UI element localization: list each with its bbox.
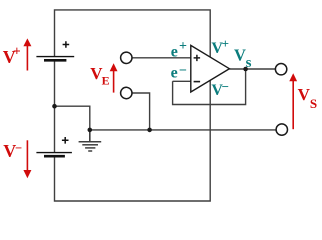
label VS (red, right): [298, 85, 318, 111]
svg-text:+: +: [179, 39, 187, 54]
wire: output to upper-right terminal: [229, 68, 275, 70]
wire: left vertical between batteries: [54, 60, 56, 152]
node: battery midpoint junction: [52, 104, 57, 109]
wire: e- input pin stub: [173, 80, 191, 82]
battery B2 plus label: [62, 137, 69, 144]
svg-text:s: s: [246, 55, 252, 71]
node: lower terminal junction: [147, 128, 152, 133]
ground: [79, 130, 102, 151]
svg-text:V: V: [234, 45, 246, 64]
svg-text:−: −: [179, 63, 187, 78]
label V+ supply (teal): [211, 36, 229, 57]
label Vs output node (teal): [234, 45, 252, 71]
wire: battery midpoint to ground node: [55, 106, 90, 130]
terminal: lower-right output: [276, 124, 287, 135]
op-amp plus input marker: [194, 55, 201, 61]
wire: bottom supply rail from battery V- to op-amp V- pin: [55, 80, 211, 201]
battery B2 (V-): [36, 153, 72, 157]
battery B1 plus label: [63, 41, 70, 48]
op-amp U1 triangle: [191, 45, 230, 92]
svg-text:e: e: [171, 65, 178, 82]
svg-text:−: −: [15, 141, 22, 155]
arrow VS (red, up): [289, 73, 297, 129]
label V- supply (teal): [211, 79, 229, 99]
svg-text:+: +: [222, 36, 229, 51]
arrow VE (red, up): [110, 63, 118, 92]
svg-text:+: +: [13, 43, 21, 58]
label e+ (teal): [171, 39, 187, 60]
terminal: upper-middle input: [121, 52, 132, 63]
svg-text:−: −: [222, 79, 229, 94]
wire: top supply rail from battery V+ to op-amp V+ pin: [55, 10, 211, 57]
wire: ground net horizontal to lower-right terminal: [90, 129, 276, 131]
terminal: upper-right output: [275, 63, 286, 74]
arrow V+ (red, up): [23, 38, 31, 70]
node: ground junction: [88, 128, 93, 133]
svg-text:E: E: [102, 74, 110, 88]
arrow V- (red, down): [23, 140, 31, 178]
label V+ (red, left top): [3, 43, 21, 67]
wire: feedback loop from e- to output node: [173, 69, 246, 105]
label V- (red, left bottom): [3, 141, 22, 161]
svg-text:e: e: [171, 44, 178, 61]
battery B1 (V+): [36, 57, 74, 61]
svg-text:S: S: [310, 96, 317, 111]
node: Vs output junction: [243, 67, 248, 72]
svg-text:V: V: [298, 85, 311, 104]
label VE (red, middle): [90, 64, 109, 87]
op-amp minus input marker: [194, 81, 201, 83]
wire: lower-middle terminal to ground net: [132, 93, 149, 130]
terminal: lower-middle input: [121, 87, 132, 98]
wire: e+ input from upper-middle terminal to op-amp: [132, 57, 191, 59]
label e- (teal): [171, 63, 187, 81]
